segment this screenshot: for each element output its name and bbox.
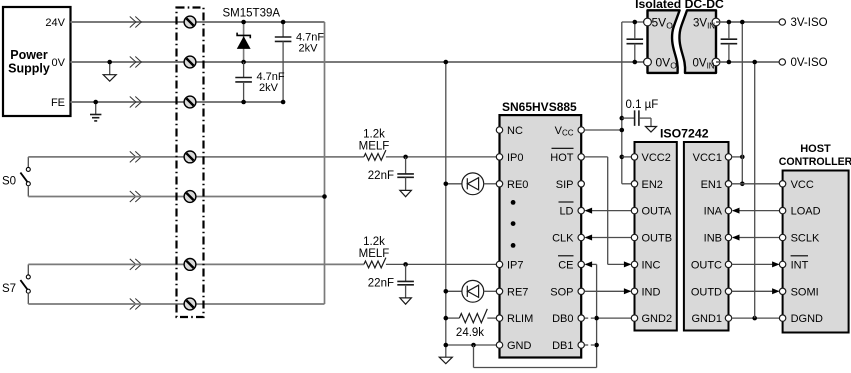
svg-text:RE7: RE7 [507, 286, 528, 298]
svg-text:24V: 24V [45, 17, 65, 29]
svg-text:22nF: 22nF [368, 277, 394, 289]
svg-text:24.9k: 24.9k [456, 327, 484, 339]
node 24V-TVS [241, 20, 246, 25]
svg-text:LOAD: LOAD [791, 206, 821, 218]
wire 24V rail [71, 21, 325, 23]
node 24V-C1 [281, 20, 286, 25]
ground (0V rail) [103, 60, 116, 81]
svg-text:OUTD: OUTD [691, 286, 722, 298]
resistor R3 24.9k [446, 309, 497, 339]
node RE7 return [444, 289, 449, 294]
svg-text:SCLK: SCLK [791, 233, 820, 245]
pin DB1 (U1 right) [552, 340, 584, 352]
wire-break chevrons S7 upper line [130, 259, 142, 270]
arrow into INA [732, 208, 740, 214]
wire OUTB to CLK [586, 237, 632, 239]
wire IP0 to SN65HVS885 [386, 156, 497, 158]
node GND / CE-loop [471, 343, 476, 348]
pin IP0 (U1 left) [496, 152, 523, 164]
wire VCC to 5V rail [584, 129, 621, 131]
svg-text:OUTB: OUTB [642, 233, 673, 245]
wire S7 lower [28, 303, 324, 305]
pin DGND (host) [779, 313, 823, 325]
svg-text:22nF: 22nF [368, 170, 394, 182]
pin SCLK (host) [779, 233, 820, 245]
wire 0V rail drop (LED return) [445, 62, 447, 357]
wire-break chevrons S7 lower line [130, 299, 142, 310]
svg-text:INC: INC [642, 259, 661, 271]
pin 5VO (DC-DC) [644, 16, 674, 31]
svg-text:2kV: 2kV [299, 43, 319, 55]
pin DB0 (U1 right) [552, 313, 584, 325]
node 5V/VCC2 [620, 155, 625, 160]
svg-text:0.1 µF: 0.1 µF [626, 99, 659, 111]
screw terminal FE [184, 96, 196, 108]
terminal block (dash-dot) [177, 8, 204, 318]
svg-text:IP0: IP0 [507, 152, 524, 164]
node IP7 filter [403, 262, 408, 267]
pin RLIM (U1 left) [496, 313, 533, 325]
arrow into CE [585, 261, 593, 267]
terminal 3V-ISO [779, 17, 828, 29]
node VCC1/3V rail [740, 155, 745, 160]
node 0VISO/C7 bottom [727, 60, 732, 65]
node IP0 filter [403, 155, 408, 160]
node FE-C2 [241, 100, 246, 105]
svg-text:EN1: EN1 [701, 179, 722, 191]
arrow into CLK [585, 235, 593, 241]
wire GND loop up to CE [596, 264, 598, 367]
pin LOAD (host) [779, 206, 820, 218]
svg-text:SM15T39A: SM15T39A [223, 8, 281, 20]
TVS diode SM15T39A [223, 8, 281, 63]
svg-text:S7: S7 [2, 283, 16, 295]
wire IP7 to SN65HVS885 [386, 263, 497, 265]
wire 0V-ISO rail drop [754, 62, 756, 318]
capacitor C6 (5V input) [627, 22, 644, 62]
svg-text:RLIM: RLIM [507, 313, 533, 325]
svg-text:DGND: DGND [791, 313, 823, 325]
svg-text:SIP: SIP [556, 179, 574, 191]
IC U2 ISO7242 body [635, 127, 729, 331]
wire-break chevrons FE line [130, 97, 142, 108]
pin OUTA (U2 left) [631, 206, 672, 218]
node DB0 tie [594, 316, 599, 321]
svg-text:NC: NC [507, 125, 523, 137]
internal dots U1 [511, 200, 516, 248]
ground (0V drop) [439, 357, 452, 364]
wire GND loop down [473, 345, 475, 368]
pin 0VIN (DC-DC) [693, 58, 720, 71]
pin EN2 (U2 left) [631, 179, 663, 191]
wire S0 upper (IP0 line) [28, 156, 364, 158]
pin LD (U1 right) [559, 202, 585, 218]
svg-text:GND2: GND2 [642, 313, 673, 325]
wire GND1 to DGND [732, 317, 780, 319]
capacitor C1 4.7nF 2kV [275, 22, 325, 102]
wire-break chevrons 24V line [130, 17, 142, 28]
pin OUTC (U2 right) [691, 259, 732, 271]
svg-text:OUTC: OUTC [691, 259, 722, 271]
LED D7 (RE7) [446, 280, 497, 302]
LED D0 (RE0) [446, 173, 497, 195]
pin EN1 (U2 right) [701, 179, 732, 191]
wire OUTC to INT [732, 263, 779, 265]
arrow into INC [624, 261, 632, 267]
svg-text:DB1: DB1 [552, 340, 573, 352]
svg-text:HOST: HOST [800, 143, 831, 155]
svg-text:GND: GND [507, 340, 532, 352]
screw terminal S7 lower [184, 298, 196, 310]
node RE0 return [444, 182, 449, 187]
ground (C4) [400, 298, 412, 304]
node 0V drop [444, 60, 449, 65]
node 5V/VCC [620, 128, 625, 133]
svg-text:VCC2: VCC2 [642, 152, 671, 164]
pin OUTB (U2 left) [631, 233, 672, 245]
svg-text:EN2: EN2 [642, 179, 663, 191]
wire-break chevrons 0V line [130, 57, 142, 68]
pin INC (U2 left) [631, 259, 660, 271]
node EN1/3V rail [740, 182, 745, 187]
capacitor C2 4.7nF 2kV [235, 62, 285, 102]
wire S7 upper (IP7 line) [28, 263, 364, 265]
pin SOP (U1 right) [550, 286, 584, 298]
capacitor C3 22nF [368, 157, 414, 191]
wire SOP to IND [584, 290, 630, 292]
wire-break chevrons S0 lower line [130, 191, 142, 202]
wire DB0 tie (dashed) [585, 317, 597, 319]
pin RE0 (U1 left) [496, 179, 528, 191]
pin VCC (host) [779, 179, 813, 191]
pin GND1 (U2 right) [691, 313, 731, 325]
svg-text:IND: IND [642, 286, 661, 298]
resistor R2 1.2k MELF [359, 236, 390, 268]
pin 3VIN (DC-DC) [693, 18, 720, 31]
node DB1 tie [594, 343, 599, 348]
pin IP7 (U1 left) [496, 259, 523, 271]
screw terminal S0 lower [184, 191, 196, 203]
wire GND to 0V drop [446, 344, 497, 346]
host controller body [779, 143, 851, 333]
svg-text:LD: LD [559, 206, 573, 218]
svg-text:Supply: Supply [8, 62, 50, 76]
node 0V-ISO rail top [752, 60, 757, 65]
IC U1 SN65HVS885 body [500, 100, 582, 358]
pin 0VO (DC-DC) [644, 56, 678, 71]
pin VCC2 (U2 left) [631, 152, 671, 164]
screw terminal 0V [184, 56, 196, 68]
node 3V rail top [740, 20, 745, 25]
pin GND2 (U2 left) [631, 313, 672, 325]
wire 3VIN to 3V-ISO [716, 21, 779, 23]
wire VCC2 stub [622, 156, 632, 158]
node 5V/0.1uF [620, 116, 625, 121]
pin V<sub>CC</sub> (U1 right) [555, 125, 585, 138]
node 0V-TVS [241, 60, 246, 65]
capacitor C7 (3V side) [721, 22, 738, 62]
svg-text:3V-ISO: 3V-ISO [791, 17, 828, 29]
resistor R1 1.2k MELF [359, 129, 390, 161]
svg-text:Isolated DC-DC: Isolated DC-DC [635, 0, 724, 11]
svg-text:MELF: MELF [359, 248, 390, 260]
node FE-C1 [281, 100, 286, 105]
svg-text:CE: CE [558, 259, 573, 271]
svg-text:FE: FE [51, 97, 65, 109]
wire FE rail [71, 101, 284, 103]
node GND1/0V-ISO rail [752, 316, 757, 321]
pin RE7 (U1 left) [496, 286, 528, 298]
pin NC (U1 left) [496, 125, 523, 137]
arrow into INT [772, 261, 780, 267]
node 0V/C6 bottom [633, 60, 638, 65]
node RLIM return [444, 316, 449, 321]
svg-text:SOMI: SOMI [791, 286, 819, 298]
switch S0 [2, 157, 30, 197]
svg-text:MELF: MELF [359, 141, 390, 153]
svg-text:RE0: RE0 [507, 179, 528, 191]
ground (C5) [646, 127, 657, 133]
node 5VO/C6 top [633, 20, 638, 25]
svg-text:CONTROLLER: CONTROLLER [779, 156, 851, 168]
wire GND loop bottom [474, 367, 597, 369]
svg-text:INA: INA [704, 206, 723, 218]
wire OUTA to LD [586, 210, 632, 212]
terminal 0V-ISO [779, 57, 828, 69]
svg-text:IP7: IP7 [507, 259, 524, 271]
node 24V drop / S0 lower [322, 194, 327, 199]
svg-text:INB: INB [704, 233, 722, 245]
pin INT (host) [779, 256, 808, 272]
wire SCLK to INB [733, 237, 779, 239]
pin CLK (U1 right) [552, 233, 584, 245]
pin CE (U1 right) [558, 256, 584, 272]
pin INA (U2 right) [704, 206, 732, 218]
power supply box [3, 7, 71, 116]
svg-text:0V-ISO: 0V-ISO [791, 57, 828, 69]
arrow into LD [585, 208, 593, 214]
screw terminal S7 upper [184, 259, 196, 271]
pin OUTD (U2 right) [691, 286, 732, 298]
svg-text:OUTA: OUTA [642, 206, 672, 218]
wire CE to GND loop [586, 263, 597, 265]
arrow into IND [624, 288, 632, 294]
wire LOAD to INA [733, 210, 779, 212]
wire 5V rail (5VO to VCC/EN2) [622, 22, 648, 184]
wire EN1 to host VCC [732, 183, 780, 185]
svg-text:CLK: CLK [552, 233, 574, 245]
svg-text:S0: S0 [2, 176, 16, 188]
pin GND (U1 left) [496, 340, 531, 352]
capacitor C5 0.1uF [622, 99, 659, 127]
wire DB1 tie (dashed) [585, 344, 597, 346]
wire 0VIN to 0V-ISO [716, 61, 779, 63]
svg-text:ISO7242: ISO7242 [660, 127, 709, 141]
wire OUTD to SOMI [732, 290, 779, 292]
pin SIP (U1 right) [556, 179, 585, 191]
svg-text:SOP: SOP [550, 286, 573, 298]
capacitor C4 22nF [368, 264, 414, 298]
pin SOMI (host) [779, 286, 818, 298]
node 3V/C7 top [727, 20, 732, 25]
arrow into INB [732, 235, 740, 241]
svg-text:HOT: HOT [550, 152, 574, 164]
svg-text:0V: 0V [52, 57, 66, 69]
wire 3V rail drop [741, 22, 743, 184]
wire S0 lower [28, 196, 324, 198]
svg-text:2kV: 2kV [259, 82, 279, 94]
svg-text:GND1: GND1 [691, 313, 722, 325]
pin VCC1 (U2 right) [693, 152, 732, 164]
wire VCC1 to 3V rail [732, 156, 743, 158]
isolated DC-DC converter body [635, 0, 724, 73]
pin HOT (U1 right) [550, 148, 584, 164]
arrow into SOMI [772, 288, 780, 294]
wire 24V drop to switch commons [324, 22, 326, 304]
wire DB0 tie to GND2 [597, 317, 632, 319]
wire-break chevrons S0 upper line [130, 151, 142, 162]
pin INB (U2 right) [704, 233, 732, 245]
screw terminal S0 upper [184, 151, 196, 163]
screw terminal 24V [184, 16, 196, 28]
svg-text:SN65HVS885: SN65HVS885 [502, 100, 577, 114]
svg-text:Power: Power [10, 48, 48, 62]
wire 0V rail [71, 61, 648, 63]
svg-text:DB0: DB0 [552, 313, 573, 325]
pin IND (U2 left) [631, 286, 660, 298]
svg-text:1.2k: 1.2k [363, 129, 385, 141]
svg-text:VCC: VCC [791, 179, 814, 191]
svg-text:INT: INT [791, 259, 809, 271]
earth ground (FE rail) [90, 100, 101, 121]
node GND / rail [444, 343, 449, 348]
ground (C3) [400, 190, 412, 196]
wire HOT to INC [584, 157, 630, 265]
switch S7 [2, 264, 30, 304]
svg-text:1.2k: 1.2k [363, 236, 385, 248]
svg-text:VCC1: VCC1 [693, 152, 722, 164]
